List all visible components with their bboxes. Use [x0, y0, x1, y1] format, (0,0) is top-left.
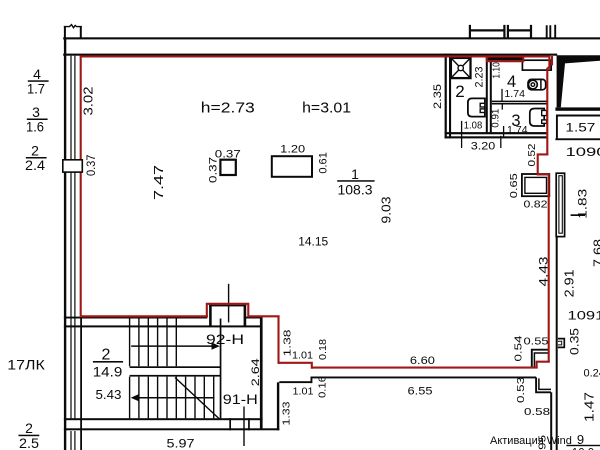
svg-text:2.4: 2.4: [25, 157, 45, 173]
svg-text:2.91: 2.91: [562, 269, 576, 297]
svg-text:0.37: 0.37: [207, 157, 219, 183]
red vertical 1.38: [277, 316, 279, 364]
wall top outer line: [63, 37, 600, 39]
svg-text:7.68: 7.68: [591, 239, 600, 267]
svg-text:0.24: 0.24: [584, 368, 600, 380]
svg-text:0.16: 0.16: [316, 376, 328, 398]
svg-text:14.15: 14.15: [298, 235, 328, 249]
stair treads lower: [130, 377, 214, 419]
niche room4: [522, 60, 551, 70]
svg-text:1: 1: [351, 166, 359, 182]
svg-text:6.55: 6.55: [408, 385, 433, 397]
top parapet bracket 1: [469, 25, 506, 38]
dim tick 0.91 room3: [501, 104, 503, 110]
dim tick 1.74 room3: [503, 126, 505, 137]
svg-text:0.35: 0.35: [569, 328, 581, 355]
svg-text:1.47: 1.47: [582, 392, 596, 422]
svg-text:2: 2: [102, 347, 111, 364]
svg-text:1.10: 1.10: [491, 62, 503, 79]
dim line 92-H: [228, 284, 230, 323]
window pier box left wall: [63, 160, 83, 172]
dim tick 3.20 right: [500, 136, 502, 148]
svg-text:0.82: 0.82: [524, 199, 548, 211]
dim tick 1.74 room4: [501, 89, 503, 101]
red bottom line 6.60: [312, 367, 538, 369]
svg-text:0.37: 0.37: [84, 154, 98, 176]
stair top wall inner: [64, 325, 260, 327]
svg-text:0.58: 0.58: [524, 406, 550, 418]
stair arrow up: [131, 345, 212, 347]
svg-text:3.20: 3.20: [471, 140, 496, 152]
red jog 0.52/0.65: [538, 154, 549, 174]
room2 sink: [468, 98, 485, 116]
red right long vertical: [548, 174, 550, 362]
pier rect 1.20: [272, 156, 312, 177]
svg-text:5.43: 5.43: [96, 388, 122, 402]
corner steps below red: [536, 377, 551, 392]
svg-text:2.5: 2.5: [19, 435, 39, 450]
corner steps above red: [532, 350, 550, 368]
svg-text:1.20: 1.20: [280, 144, 305, 156]
wall top inner line: [63, 54, 557, 56]
stair treads upper: [130, 319, 177, 367]
red corner 0.55/0.54: [537, 362, 550, 368]
dim tick 1.08/3.20: [461, 121, 463, 148]
wall right long vertical: [556, 237, 558, 450]
wall left break bump: [65, 26, 81, 38]
svg-text:1.08: 1.08: [464, 121, 483, 132]
stair inner left wall face: [80, 317, 82, 450]
boundary step 0.16: [311, 377, 313, 384]
svg-text:0.52: 0.52: [526, 143, 538, 166]
stair landing lines: [130, 366, 221, 368]
svg-text:6.60: 6.60: [410, 355, 435, 367]
svg-text:9.03: 9.03: [380, 196, 394, 223]
room4 top wall band: [486, 57, 523, 60]
svg-text:1.01: 1.01: [292, 350, 313, 362]
red segment bump-corner: [248, 315, 279, 317]
svg-text:0.53: 0.53: [515, 377, 527, 403]
svg-text:0.95: 0.95: [537, 435, 549, 450]
svg-text:1.01: 1.01: [293, 386, 314, 398]
stair top wall outer right: [244, 317, 260, 319]
wall left glazing lines: [70, 56, 71, 419]
svg-text:h=3.01: h=3.01: [302, 101, 351, 117]
svg-text:92-Н: 92-Н: [206, 331, 244, 347]
svg-text:1090: 1090: [566, 145, 600, 159]
stairwell divider: [220, 319, 222, 419]
svg-text:108.3: 108.3: [338, 182, 373, 197]
svg-text:9: 9: [577, 432, 584, 447]
stair arrow down: [138, 397, 215, 399]
red bump to left wall: [81, 315, 208, 317]
svg-text:1.57: 1.57: [565, 121, 595, 135]
stair diagonal: [175, 378, 220, 420]
svg-text:0.65: 0.65: [508, 173, 520, 198]
svg-text:17ЛК: 17ЛК: [7, 358, 45, 373]
room3 sink: [530, 109, 544, 127]
svg-text:2.23: 2.23: [474, 67, 486, 88]
red niche right edge: [547, 55, 550, 154]
svg-text:0.91: 0.91: [489, 109, 501, 128]
svg-text:4.43: 4.43: [538, 257, 550, 287]
top parapet bracket 2: [507, 25, 532, 38]
svg-text:1.6: 1.6: [26, 119, 44, 135]
boundary line 1.01 lower: [279, 381, 311, 383]
svg-text:1.33: 1.33: [281, 401, 293, 425]
red left line: [80, 56, 82, 316]
door bump 92-H: [209, 305, 212, 326]
black corner wedge: [557, 55, 600, 107]
red wedge stub: [551, 56, 553, 65]
svg-text:7.47: 7.47: [151, 165, 166, 200]
bathroom middle wall (double line): [486, 56, 488, 133]
top wall ticks right: [547, 25, 556, 39]
svg-text:14.9: 14.9: [93, 365, 123, 380]
boundary corner vertical right of stairs: [277, 382, 279, 430]
bathroom bottom wall (double line): [445, 132, 547, 134]
red step 0.18: [279, 363, 312, 369]
tick for 1.83: [571, 214, 585, 216]
svg-text:0.61: 0.61: [318, 152, 330, 174]
svg-text:2: 2: [455, 82, 464, 101]
svg-text:10917: 10917: [568, 311, 600, 323]
wall rooms 3|4 (double line): [492, 101, 547, 103]
stair top wall outer left: [64, 317, 207, 319]
svg-text:91-Н: 91-Н: [223, 391, 258, 407]
svg-text:0.54: 0.54: [513, 335, 525, 361]
bathroom left wall (double line): [445, 54, 447, 139]
column square 0.37: [220, 160, 235, 175]
vent shaft X-box: [451, 58, 471, 78]
wall below wedge: [555, 107, 600, 110]
red bump 92-H: [207, 304, 249, 318]
window right 1.83: [556, 173, 564, 236]
room4 toilet: [528, 79, 546, 89]
svg-text:1.83: 1.83: [575, 188, 589, 218]
dim line 5.97 / 91-H: [243, 407, 245, 447]
boundary line 6.55: [312, 377, 536, 379]
svg-text:2.64: 2.64: [250, 358, 262, 386]
svg-text:1.7: 1.7: [27, 81, 45, 97]
svg-text:2: 2: [25, 420, 33, 436]
svg-text:1.74: 1.74: [507, 124, 528, 136]
svg-text:h=2.73: h=2.73: [201, 101, 255, 117]
red room4 interior edge: [486, 56, 525, 61]
red top line: [80, 55, 550, 57]
svg-text:1.74: 1.74: [504, 88, 525, 100]
wall left main: [64, 38, 66, 450]
stair right wall: [260, 317, 263, 429]
bottom wall band line1: [64, 418, 263, 420]
svg-text:3.02: 3.02: [81, 87, 96, 116]
svg-text:5.97: 5.97: [167, 437, 195, 450]
balcony box 1.57: [557, 116, 600, 141]
svg-text:2.35: 2.35: [432, 84, 444, 109]
svg-text:0.18: 0.18: [317, 339, 329, 360]
svg-text:Активация Wind: Активация Wind: [490, 435, 572, 447]
svg-text:0.55: 0.55: [524, 335, 549, 347]
bottom wall band line2: [64, 428, 279, 430]
small bracket at 0.35: [558, 339, 564, 348]
shaft double rectangle 0.82: [522, 174, 549, 196]
band verticals: [229, 418, 231, 430]
right boundary vertical bottom: [550, 392, 552, 450]
